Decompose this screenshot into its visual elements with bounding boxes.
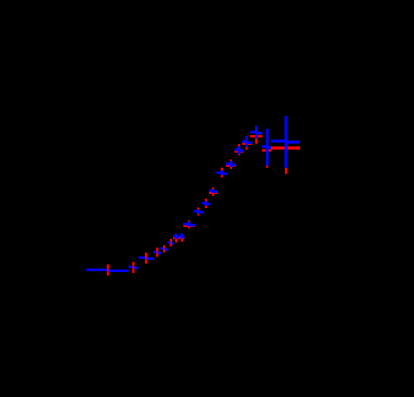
point P10 blue y-error bar [197,210,200,214]
point P3 blue x-error bar right half [146,257,154,260]
point P1 blue x-error bar left half [86,269,108,272]
point P19 red x-error bar [271,146,300,149]
point P19 blue x-error bar left half [271,140,286,143]
point P2 blue x-error bar right half [133,267,138,270]
point P12 blue x-error bar left half [209,189,213,192]
point P18 red y-error bar overlay [266,135,268,168]
point P9 red y-error bar [188,220,190,228]
point P14 blue x-error bar right half [231,164,236,167]
point P2 blue x-error bar left half [129,266,134,269]
point P10 red y-error bar overlay [197,208,199,216]
point P12 red y-error bar [212,188,214,196]
point P14 red y-error bar overlay [230,160,232,169]
point P18 blue y-error bar [266,129,269,166]
point P12 blue x-error bar right half [213,190,218,193]
point P7 red x-error bar [173,237,179,239]
point P11 red y-error bar overlay [205,199,207,208]
point P16 red x-error bar [242,143,252,145]
point P3 blue x-error bar left half [138,256,146,259]
point P17 red y-error bar [255,130,257,144]
point P1 red y-error bar overlay [107,264,109,275]
point P12 red y-error bar overlay [212,188,214,196]
point P15 blue x-error bar right half [239,149,244,152]
point P12 blue y-error bar [212,190,215,194]
point P10 red y-error bar [197,208,199,216]
point P16 blue x-error bar right half [247,141,253,144]
point P18 red x-error bar [262,149,272,151]
point P15 blue x-error bar left half [235,148,240,151]
point P6 blue x-error bar right half [171,242,174,245]
point P3 red y-error bar overlay [145,253,147,264]
point P17 red x-error bar [250,135,262,137]
point P7 blue x-error bar right half [176,236,179,239]
point P13 red y-error bar [221,168,223,178]
point P9 blue x-error bar left half [183,223,189,226]
point P16 blue x-error bar left half [242,140,246,143]
point P13 red y-error bar overlay [221,168,223,178]
point P8 blue y-error bar [180,234,183,239]
point P7 blue x-error bar left half [173,235,176,238]
point P8 red y-error bar [181,234,183,242]
point P17 blue x-error bar right half [256,132,262,135]
point P14 red y-error bar [230,160,232,169]
point P4 blue x-error bar left half [153,251,157,254]
point P5 red y-error bar [163,245,165,252]
point P4 blue x-error bar right half [157,252,161,255]
point P2 red y-error bar overlay [132,262,134,273]
point P2 red y-error bar [132,262,134,273]
point P14 red x-error bar [226,164,236,166]
point P14 blue y-error bar [230,161,233,167]
point P19 red y-error bar [285,140,287,174]
point P3 red y-error bar [145,253,147,264]
point P5 red y-error bar overlay [163,245,165,252]
point P6 red y-error bar overlay [170,239,172,247]
point P9 blue x-error bar right half [189,224,195,227]
point P18 red y-error bar [266,135,268,168]
point P7 red y-error bar [175,234,177,243]
point P11 red y-error bar [205,199,207,208]
point P17 blue x-error bar left half [250,131,256,134]
point P15 red y-error bar [238,144,240,155]
point P8 blue x-error bar right half [182,236,185,239]
point P12 red x-error bar [209,192,218,194]
point P10 blue x-error bar left half [194,210,199,213]
point P15 red x-error bar [235,150,244,152]
point P9 blue y-error bar [188,221,191,226]
point P5 blue x-error bar left half [160,247,164,250]
point P13 blue x-error bar right half [222,172,227,175]
point P19 blue y-error bar [285,116,288,168]
point P8 red y-error bar overlay [181,234,183,242]
point P8 blue x-error bar left half [179,235,181,238]
point P17 red y-error bar overlay [255,130,257,144]
point P17 blue y-error bar [255,126,258,139]
point P19 blue x-error bar right half [286,141,300,144]
point P6 red y-error bar [170,239,172,247]
point P1 red y-error bar [107,264,109,275]
point P13 blue x-error bar left half [216,171,222,174]
point P9 red y-error bar overlay [188,220,190,228]
point P10 blue x-error bar right half [198,211,203,214]
point P6 blue x-error bar left half [168,241,171,244]
point P13 blue y-error bar [221,170,224,175]
point P16 red y-error bar [246,137,248,150]
point P16 blue y-error bar [245,136,248,147]
point P16 red y-error bar overlay [246,137,248,150]
point P8 red x-error bar [179,237,184,239]
point P4 red y-error bar [156,248,158,257]
point P4 red y-error bar overlay [156,248,158,257]
point P5 blue x-error bar right half [164,248,168,251]
point P11 blue x-error bar left half [202,202,206,205]
point P9 red x-error bar [183,225,195,227]
point P18 blue x-error bar left half [262,145,267,148]
point P14 blue x-error bar left half [226,163,231,166]
point P11 blue y-error bar [205,201,208,206]
point P7 blue y-error bar [175,234,178,239]
point P7 red y-error bar overlay [175,234,177,243]
point P18 blue x-error bar right half [267,146,271,149]
point P15 red y-error bar overlay [238,144,240,155]
point P19 red y-error bar overlay [285,140,287,174]
point P11 blue x-error bar right half [206,203,210,206]
point P1 blue x-error bar right half [108,270,129,273]
point P15 blue y-error bar [238,146,241,154]
